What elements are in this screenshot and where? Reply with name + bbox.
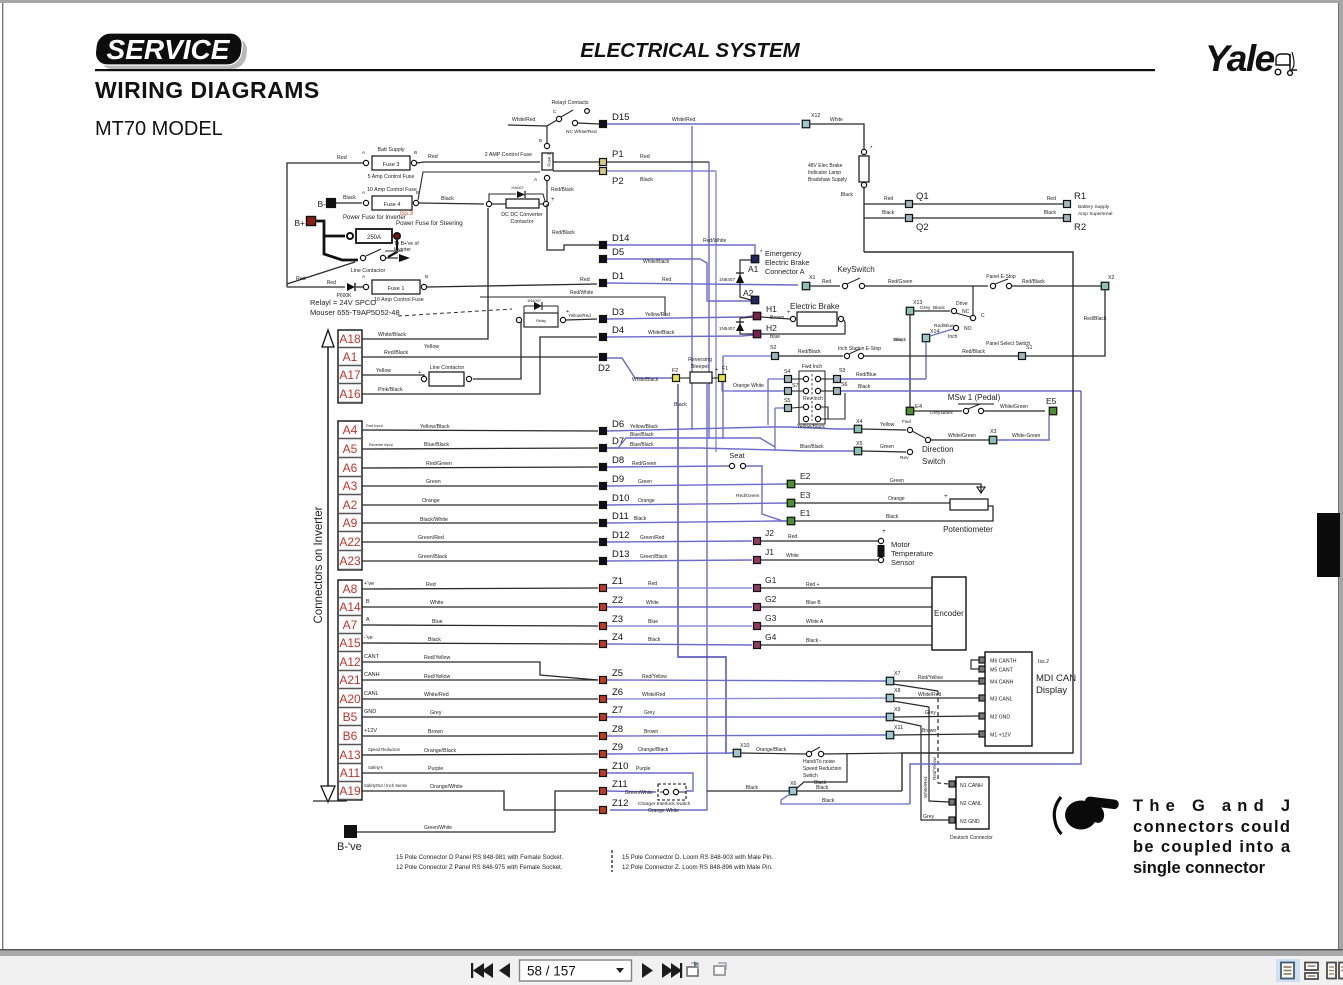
diode 1N4007 dcdc bbox=[517, 191, 525, 198]
svg-text:2 AMP Control Fuse: 2 AMP Control Fuse bbox=[485, 152, 532, 158]
svg-text:Black -: Black - bbox=[806, 638, 822, 644]
wire X7 branch to N1 dashed bbox=[893, 684, 938, 691]
svg-text:Red: Red bbox=[428, 154, 438, 160]
wire Z4 Black to G4 bbox=[607, 644, 752, 645]
toolbar single page icon active bbox=[1276, 959, 1300, 982]
svg-text:1N5407: 1N5407 bbox=[719, 277, 736, 282]
svg-text:Battery Supply: Battery Supply bbox=[1078, 204, 1110, 210]
toolbar background bbox=[0, 956, 1343, 985]
svg-text:S4: S4 bbox=[784, 369, 791, 375]
svg-text:White/Black: White/Black bbox=[643, 259, 670, 265]
node X6 bbox=[789, 787, 797, 795]
svg-text:D5: D5 bbox=[612, 247, 624, 258]
inverter bus arrow line bbox=[327, 345, 329, 786]
svg-text:Amp Supersreal: Amp Supersreal bbox=[1078, 211, 1112, 217]
svg-text:Line Contactor: Line Contactor bbox=[430, 365, 465, 371]
switch keyswitch bbox=[810, 285, 840, 287]
pin M1 MDI bbox=[979, 731, 985, 737]
svg-text:Fuse 2: Fuse 2 bbox=[547, 153, 552, 167]
svg-text:Q1: Q1 bbox=[916, 191, 929, 202]
svg-text:Indicator Lamp: Indicator Lamp bbox=[808, 170, 841, 176]
svg-text:Red/Yellow: Red/Yellow bbox=[932, 757, 937, 780]
svg-text:R1: R1 bbox=[1074, 191, 1086, 202]
lamp 48V elec brake indicator bbox=[861, 149, 866, 154]
wire A22 Green/Red to D12 bbox=[362, 541, 598, 543]
svg-text:Fuse 3: Fuse 3 bbox=[383, 162, 400, 168]
wire D7 Blue/Black to X5 bbox=[607, 448, 854, 451]
wire X2 down Red/Black bbox=[1073, 290, 1105, 356]
svg-text:single connector: single connector bbox=[1133, 859, 1266, 877]
svg-text:Black: Black bbox=[816, 785, 829, 791]
svg-text:A6: A6 bbox=[343, 461, 358, 475]
svg-text:GND: GND bbox=[364, 709, 376, 715]
svg-text:Red/Black: Red/Black bbox=[551, 187, 574, 193]
svg-text:Black: Black bbox=[441, 196, 454, 202]
svg-text:be coupled into a: be coupled into a bbox=[1133, 838, 1291, 856]
svg-text:Grey: Grey bbox=[925, 710, 936, 716]
svg-text:G2: G2 bbox=[765, 594, 777, 604]
wire D13 Green/Black to J1 bbox=[607, 560, 752, 561]
svg-text:Seat: Seat bbox=[729, 451, 745, 460]
wire D11 Black to E1 bbox=[607, 521, 787, 523]
svg-text:H1: H1 bbox=[766, 304, 777, 314]
svg-text:Black: Black bbox=[343, 195, 356, 201]
sidebar pull tab bbox=[1317, 513, 1340, 577]
wire B6 Brown to Z8 bbox=[362, 735, 598, 737]
svg-text:Red/Green: Red/Green bbox=[888, 279, 913, 285]
fuse 250A power fuse bbox=[356, 229, 392, 243]
svg-text:Speed Reduction: Speed Reduction bbox=[368, 747, 401, 752]
wire E2 Green to pot wiper bbox=[795, 484, 981, 493]
wire D12 Green/Red to J2 bbox=[607, 541, 752, 542]
svg-text:Black: Black bbox=[841, 192, 854, 198]
svg-text:S1: S1 bbox=[1026, 345, 1033, 351]
svg-text:Purple: Purple bbox=[636, 766, 651, 772]
svg-text:Black: Black bbox=[941, 410, 953, 416]
svg-text:Sensor: Sensor bbox=[891, 558, 915, 567]
svg-text:Red: Red bbox=[1047, 196, 1056, 202]
wire Z11 Green/White to charger switch bbox=[607, 791, 656, 792]
node Z7 bbox=[600, 714, 607, 721]
wire D3 Yellow/Red to H1 bbox=[607, 316, 753, 319]
wire bus mid 709 bbox=[708, 162, 710, 439]
node D15 bbox=[600, 121, 607, 128]
connector pin function labels bbox=[364, 424, 408, 788]
svg-text:Motor: Motor bbox=[891, 540, 911, 549]
svg-text:Black: Black bbox=[674, 402, 687, 408]
node X8 bbox=[886, 694, 894, 702]
svg-text:Safety's: Safety's bbox=[368, 765, 383, 770]
svg-text:X9: X9 bbox=[894, 707, 901, 713]
toolbar snapshot icon bbox=[687, 961, 698, 976]
deutsch connector box bbox=[956, 777, 989, 829]
toolbar two-page icon bbox=[1327, 963, 1336, 979]
node E1 bbox=[787, 517, 795, 525]
wire B5 Grey to Z7 bbox=[362, 716, 598, 718]
svg-text:M6 CANTH: M6 CANTH bbox=[990, 659, 1017, 665]
node J2 bbox=[754, 538, 761, 545]
node R1 bbox=[1064, 201, 1071, 208]
svg-text:Yellow/Red: Yellow/Red bbox=[645, 312, 670, 318]
node G3 bbox=[754, 623, 761, 630]
contactor DC DC converter bbox=[506, 199, 539, 208]
svg-text:Red: Red bbox=[788, 534, 797, 540]
node E5 bbox=[1049, 407, 1057, 415]
arrow to B+ve of inverter bbox=[399, 254, 410, 262]
wire Z2 White to G2 bbox=[607, 606, 752, 608]
svg-text:Red: Red bbox=[426, 582, 436, 588]
wire left feed vertical bbox=[287, 163, 292, 287]
svg-text:Red: Red bbox=[640, 154, 650, 160]
svg-text:Fwd Input: Fwd Input bbox=[366, 424, 384, 428]
wire A23 Green/Black to D13 bbox=[362, 560, 598, 562]
svg-text:C: C bbox=[981, 313, 985, 319]
pin M2 MDI bbox=[979, 713, 985, 719]
wire A3 Green to D9 bbox=[362, 485, 598, 487]
node D11 bbox=[600, 520, 607, 527]
svg-text:+: + bbox=[715, 367, 718, 373]
wire D1 Red to X1 bbox=[607, 283, 798, 285]
svg-text:B: B bbox=[366, 599, 370, 605]
node Z9 bbox=[600, 751, 607, 758]
svg-text:Red/Yellow: Red/Yellow bbox=[424, 655, 450, 661]
line contactor LC1 contacts bbox=[360, 255, 365, 260]
svg-text:Blue: Blue bbox=[770, 334, 780, 340]
svg-text:A16: A16 bbox=[339, 387, 361, 401]
node S1 bbox=[1019, 353, 1026, 360]
svg-text:Green: Green bbox=[638, 479, 652, 485]
svg-text:Relayl Contacts: Relayl Contacts bbox=[551, 100, 588, 106]
svg-text:SERVICE: SERVICE bbox=[107, 34, 231, 65]
svg-text:Red/Yellow: Red/Yellow bbox=[424, 674, 450, 680]
node D13 bbox=[600, 558, 607, 565]
svg-text:Orange White: Orange White bbox=[733, 383, 764, 389]
wire E1 Black to pot bbox=[795, 506, 993, 521]
svg-text:NC White/Red: NC White/Red bbox=[566, 129, 597, 135]
svg-text:Black: Black bbox=[634, 516, 647, 522]
svg-text:Orange: Orange bbox=[422, 498, 440, 504]
wire black bus right bbox=[864, 252, 1073, 791]
svg-text:Drive: Drive bbox=[956, 301, 968, 307]
wire S5 drop bbox=[774, 408, 776, 450]
svg-text:A4: A4 bbox=[343, 423, 358, 437]
svg-text:+: + bbox=[944, 493, 948, 500]
wire S4 drop bbox=[767, 379, 769, 425]
pin M6 MDI bbox=[979, 657, 985, 663]
svg-text:Orange/Black: Orange/Black bbox=[638, 747, 669, 753]
svg-text:Blue/Black: Blue/Black bbox=[630, 432, 654, 438]
svg-text:White/Green: White/Green bbox=[948, 433, 976, 439]
svg-text:A2: A2 bbox=[343, 498, 358, 512]
svg-text:White/Black: White/Black bbox=[648, 330, 675, 336]
svg-text:Panel E-Stop: Panel E-Stop bbox=[986, 274, 1016, 280]
inverter bus down arrow bbox=[321, 786, 335, 802]
svg-text:Reverse Input: Reverse Input bbox=[369, 443, 394, 447]
svg-text:Black: Black bbox=[858, 384, 871, 390]
node H1 bbox=[753, 312, 761, 320]
svg-text:Black: Black bbox=[428, 637, 441, 643]
svg-text:A15: A15 bbox=[339, 636, 361, 650]
svg-text:15 Pole Connector D. Loom RS 8: 15 Pole Connector D. Loom RS 848-903 wit… bbox=[622, 854, 774, 861]
svg-text:Yellow/Red: Yellow/Red bbox=[568, 313, 591, 318]
wire P1 Red bbox=[607, 161, 709, 163]
svg-text:Z6: Z6 bbox=[612, 687, 623, 698]
svg-text:Red/Black: Red/Black bbox=[1022, 279, 1045, 285]
svg-text:Black: Black bbox=[746, 785, 759, 791]
contactor line contactor LC2 bbox=[429, 372, 464, 386]
svg-text:A18: A18 bbox=[339, 332, 361, 346]
svg-text:NC: NC bbox=[962, 309, 970, 315]
svg-text:Black: Black bbox=[822, 798, 835, 804]
wire P2 Black bbox=[607, 170, 716, 172]
wire D6 Yellow/Black to X4 bbox=[607, 427, 854, 431]
node X4 bbox=[854, 425, 862, 433]
svg-text:Z3: Z3 bbox=[612, 614, 623, 625]
svg-text:Grey: Grey bbox=[430, 710, 442, 716]
svg-text:Charger Interlock Switch: Charger Interlock Switch bbox=[638, 801, 691, 807]
svg-text:Electric Brake: Electric Brake bbox=[790, 302, 840, 311]
svg-text:White/Red: White/Red bbox=[512, 117, 536, 123]
connector pins A4-A23 bbox=[339, 423, 362, 570]
wire Q1 to R1 Red bbox=[913, 203, 1063, 205]
svg-text:12 Pole Connector Z. Loom RS 8: 12 Pole Connector Z. Loom RS 848-896 wit… bbox=[622, 864, 773, 871]
wire D7 Blue/Black upper bbox=[607, 438, 775, 448]
svg-text:B: B bbox=[425, 274, 428, 280]
wire D14 Red/White to emergency connector bbox=[607, 245, 755, 255]
contact fwd inch top bbox=[803, 376, 808, 381]
svg-text:Green/White: Green/White bbox=[424, 825, 452, 831]
wire A8 Red to Z1 bbox=[362, 588, 598, 589]
fuse F4 Fuse 4 bbox=[372, 196, 412, 210]
svg-text:Reversing: Reversing bbox=[688, 357, 712, 363]
svg-text:Yellow/Black: Yellow/Black bbox=[420, 424, 450, 430]
contact Rev bbox=[862, 451, 906, 452]
svg-text:M3 CANL: M3 CANL bbox=[990, 697, 1013, 703]
svg-text:Red: Red bbox=[884, 196, 893, 202]
svg-text:5 Amp Control Fuse: 5 Amp Control Fuse bbox=[368, 174, 415, 180]
svg-text:1N5407: 1N5407 bbox=[719, 326, 736, 331]
svg-text:Z5: Z5 bbox=[612, 668, 623, 679]
wire D8 Red/Green to Seat bbox=[607, 466, 729, 467]
svg-text:Red: Red bbox=[337, 155, 347, 161]
diode 1N5407 H bbox=[740, 317, 753, 334]
wire D5 White/Black to A2 bbox=[607, 259, 751, 301]
svg-text:B5: B5 bbox=[343, 710, 358, 724]
wire A21 Red/Yellow to Z5 bbox=[362, 679, 598, 681]
wire A12 CANT Red/Yellow to Z5 bbox=[362, 662, 598, 680]
svg-text:Red/Black: Red/Black bbox=[798, 349, 821, 355]
svg-text:S6: S6 bbox=[841, 382, 848, 388]
node Z8 bbox=[600, 733, 607, 740]
wire A1 Red/Black to D2 bbox=[362, 356, 598, 358]
svg-text:D3: D3 bbox=[612, 307, 624, 318]
wire bus mid 702 bbox=[691, 126, 693, 430]
svg-text:58 / 157: 58 / 157 bbox=[527, 964, 576, 979]
svg-text:Panel Select Switch: Panel Select Switch bbox=[986, 341, 1030, 347]
svg-text:White: White bbox=[786, 553, 799, 559]
svg-text:Emergency: Emergency bbox=[765, 249, 802, 258]
header underline bbox=[95, 69, 1155, 71]
switch block fwd/rev inch outline bbox=[799, 371, 825, 424]
connector pins A18-A16 bbox=[339, 332, 362, 403]
svg-text:Grey: Grey bbox=[920, 305, 931, 311]
wire D2 White/Black to F2 bbox=[607, 358, 672, 378]
wire A18 White/Black to DCDC contactor coil bbox=[362, 208, 488, 339]
svg-text:Batt Supply: Batt Supply bbox=[377, 147, 404, 153]
svg-text:Z2: Z2 bbox=[612, 595, 623, 606]
svg-text:Encoder: Encoder bbox=[934, 609, 964, 618]
svg-text:Bleeper: Bleeper bbox=[691, 364, 709, 370]
svg-text:NO: NO bbox=[964, 326, 972, 332]
contact rev inch bottom bbox=[803, 416, 808, 421]
node X3 bbox=[989, 436, 997, 444]
svg-text:White-Green: White-Green bbox=[1012, 433, 1041, 439]
svg-text:Z7: Z7 bbox=[612, 705, 623, 716]
svg-text:Blue/Black: Blue/Black bbox=[630, 442, 654, 448]
svg-text:B: B bbox=[414, 150, 417, 156]
svg-text:Red: Red bbox=[327, 280, 336, 286]
svg-text:G4: G4 bbox=[765, 632, 777, 642]
node D6 bbox=[600, 428, 607, 435]
wire X9 branch to N3 bbox=[893, 720, 949, 820]
Yale forklift glyph bbox=[1275, 52, 1297, 75]
switch direction common bbox=[925, 437, 930, 442]
svg-text:Iss.2: Iss.2 bbox=[1038, 659, 1049, 665]
svg-text:Red/Green: Red/Green bbox=[426, 461, 452, 467]
svg-text:P2: P2 bbox=[612, 176, 624, 187]
svg-text:Black/White: Black/White bbox=[420, 517, 448, 523]
svg-text:Red: Red bbox=[822, 279, 831, 285]
wire fuse2A redblack to contactor bbox=[546, 181, 548, 201]
svg-text:Orange White: Orange White bbox=[648, 808, 679, 814]
svg-text:X5: X5 bbox=[856, 441, 863, 447]
wire G3 White A bbox=[761, 625, 932, 627]
svg-text:Blue/Black: Blue/Black bbox=[424, 442, 449, 448]
svg-text:Brown: Brown bbox=[428, 729, 443, 735]
wire A7 Blue to Z3 bbox=[362, 625, 598, 626]
svg-text:MT70 MODEL: MT70 MODEL bbox=[95, 118, 223, 140]
node X13 bbox=[906, 307, 914, 315]
svg-text:Contactor: Contactor bbox=[511, 219, 534, 225]
svg-text:Black: Black bbox=[894, 337, 906, 343]
svg-text:Fwd Inch: Fwd Inch bbox=[802, 364, 823, 370]
svg-text:B+: B+ bbox=[294, 218, 305, 228]
node X2 bbox=[1101, 282, 1109, 290]
svg-text:Z4: Z4 bbox=[612, 632, 623, 643]
svg-text:Black: Black bbox=[933, 305, 945, 311]
svg-text:+: + bbox=[882, 528, 886, 535]
svg-text:Black: Black bbox=[1044, 210, 1057, 216]
svg-text:Green: Green bbox=[890, 478, 904, 484]
node S7 bbox=[785, 388, 792, 395]
svg-text:MSw 1 (Pedal): MSw 1 (Pedal) bbox=[948, 393, 1001, 402]
svg-text:Purple: Purple bbox=[428, 766, 443, 772]
svg-text:Brown: Brown bbox=[644, 729, 658, 735]
svg-text:N2 CANL: N2 CANL bbox=[960, 801, 982, 807]
svg-text:Display: Display bbox=[1036, 685, 1067, 696]
svg-text:-'ve: -'ve bbox=[364, 635, 373, 641]
wire A9 Black/White to D11 bbox=[362, 522, 598, 524]
wire X9 Grey to M2 bbox=[894, 716, 979, 717]
svg-text:Z11: Z11 bbox=[612, 779, 628, 790]
svg-text:Red/White: Red/White bbox=[703, 238, 727, 244]
node S6 bbox=[834, 388, 841, 395]
svg-text:Z12: Z12 bbox=[612, 798, 628, 809]
pin M3 MDI bbox=[979, 695, 985, 701]
node E3 bbox=[787, 499, 795, 507]
node Q2 bbox=[906, 215, 913, 222]
svg-text:Red: Red bbox=[296, 276, 306, 282]
node Z10 bbox=[600, 770, 607, 777]
wire contactor to D14 Red/Black bbox=[547, 204, 599, 250]
node G2 bbox=[754, 604, 761, 611]
SERVICE logo shadow bbox=[99, 38, 248, 69]
switch charger interlock bbox=[658, 784, 686, 800]
svg-text:Red +: Red + bbox=[806, 582, 820, 588]
toolbar last-page button bbox=[662, 963, 682, 978]
svg-text:B-: B- bbox=[318, 199, 327, 209]
terminal B-ve bbox=[344, 825, 357, 838]
wire D4 White/Black to H2 bbox=[607, 335, 753, 337]
node D3 bbox=[600, 316, 607, 323]
node D8 bbox=[600, 464, 607, 471]
svg-text:Fuse 1: Fuse 1 bbox=[388, 286, 405, 292]
svg-text:White/Black: White/Black bbox=[632, 377, 659, 383]
svg-text:A8: A8 bbox=[343, 582, 358, 596]
wire fuse2 A to P2 bbox=[553, 170, 600, 172]
svg-text:D10: D10 bbox=[612, 493, 629, 504]
svg-text:Blue: Blue bbox=[648, 619, 658, 625]
svg-text:A11: A11 bbox=[340, 766, 361, 780]
svg-text:Z9: Z9 bbox=[612, 742, 623, 753]
svg-text:Switch: Switch bbox=[803, 773, 818, 779]
svg-text:S3: S3 bbox=[839, 368, 846, 374]
svg-text:Z8: Z8 bbox=[612, 724, 623, 735]
svg-text:Electric Brake: Electric Brake bbox=[765, 258, 809, 267]
node H2 bbox=[753, 330, 761, 338]
connector block A18-A16 bbox=[338, 330, 362, 403]
svg-text:Orange/Black: Orange/Black bbox=[424, 748, 456, 754]
svg-text:White/Red: White/Red bbox=[424, 692, 449, 698]
fuse F2 2AMP control fuse bbox=[542, 153, 553, 170]
svg-text:+: + bbox=[551, 197, 555, 203]
svg-text:Red/Green: Red/Green bbox=[736, 493, 760, 499]
svg-text:48V Elec Brake: 48V Elec Brake bbox=[808, 163, 843, 169]
page left border bbox=[2, 3, 3, 950]
svg-text:J1: J1 bbox=[765, 547, 774, 557]
svg-text:White: White bbox=[830, 117, 843, 123]
toolbar first-page button bbox=[471, 963, 493, 978]
node S3 bbox=[834, 376, 841, 383]
pin M5 MDI bbox=[979, 666, 985, 672]
svg-text:Rev: Rev bbox=[900, 455, 909, 461]
node S5 bbox=[785, 405, 792, 412]
wire bus mid 716 bbox=[715, 171, 717, 452]
connector pins A8-A19 bbox=[339, 582, 362, 800]
svg-text:Red/Black: Red/Black bbox=[552, 230, 575, 236]
node D1 bbox=[600, 280, 607, 287]
node Z2 bbox=[600, 604, 607, 611]
wire bus mid 707 orange/white from bleeper to Z12 bbox=[610, 384, 707, 810]
svg-text:Fuse 4: Fuse 4 bbox=[384, 202, 401, 208]
svg-text:Red: Red bbox=[580, 277, 590, 283]
node R2 bbox=[1064, 215, 1071, 222]
note text G and J connectors bbox=[1133, 797, 1291, 877]
svg-text:Orange/Black: Orange/Black bbox=[756, 747, 787, 753]
svg-text:A23: A23 bbox=[339, 554, 361, 568]
svg-text:X7: X7 bbox=[894, 671, 901, 677]
svg-text:Relayl = 24V SPCO: Relayl = 24V SPCO bbox=[310, 298, 376, 307]
